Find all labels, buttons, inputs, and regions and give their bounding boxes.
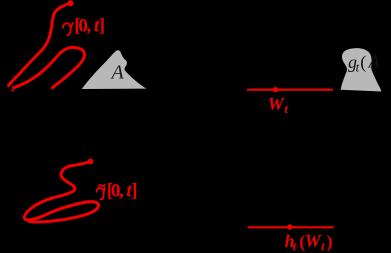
svg-text:): ) <box>327 232 333 253</box>
svg-text:A: A <box>368 52 381 72</box>
svg-text:A: A <box>110 62 125 84</box>
svg-text:t: t <box>356 60 360 75</box>
svg-text:t: t <box>321 239 325 253</box>
svg-text:(: ( <box>360 52 366 73</box>
svg-text:t: t <box>293 239 297 253</box>
svg-text:,: , <box>119 181 124 202</box>
svg-text:W: W <box>268 94 286 114</box>
svg-text:,: , <box>86 16 91 37</box>
svg-text:]: ] <box>99 16 105 37</box>
svg-text:t: t <box>284 101 288 116</box>
svg-text:]: ] <box>131 181 137 202</box>
